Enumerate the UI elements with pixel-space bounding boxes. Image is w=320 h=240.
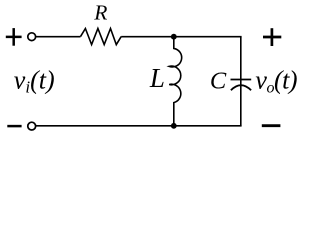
svg-text:R: R — [93, 0, 107, 24]
capacitor C curved plate — [231, 85, 251, 90]
svg-text:vi(t): vi(t) — [14, 66, 55, 97]
svg-text:vo(t): vo(t) — [255, 66, 297, 97]
junction dot bottom (node B) — [171, 123, 177, 129]
inductor L coil branch — [169, 37, 181, 126]
minus sign output (-) bottom-right — [262, 124, 281, 127]
junction dot top (node A) — [171, 34, 177, 40]
svg-text:L: L — [149, 63, 165, 93]
terminal circle bottom-left — [28, 122, 36, 130]
plus sign output (+) top-right — [263, 28, 281, 46]
terminal circle top-left — [28, 33, 36, 41]
wire bottom from terminal to right corner — [36, 125, 242, 127]
plus sign input (+) top-left — [6, 28, 22, 46]
capacitor C flat plate — [231, 79, 252, 81]
wire top from resistor to right corner — [121, 36, 241, 38]
svg-text:C: C — [210, 68, 227, 95]
wire top from terminal to resistor — [36, 36, 81, 38]
capacitor C branch vertical lead — [240, 37, 242, 126]
minus sign input (-) bottom-left — [7, 125, 21, 128]
resistor R zigzag — [81, 29, 122, 45]
